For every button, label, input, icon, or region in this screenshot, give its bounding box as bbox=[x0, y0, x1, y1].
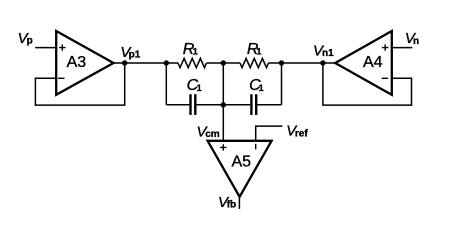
svg-text:A4: A4 bbox=[363, 54, 383, 71]
svg-text:fb: fb bbox=[227, 200, 236, 211]
svg-text:1: 1 bbox=[256, 46, 261, 56]
svg-text:1: 1 bbox=[259, 83, 264, 93]
svg-text:A5: A5 bbox=[232, 153, 252, 170]
svg-text:p1: p1 bbox=[129, 50, 141, 61]
svg-text:n1: n1 bbox=[322, 48, 334, 59]
svg-text:cm: cm bbox=[205, 129, 220, 140]
svg-text:1: 1 bbox=[197, 83, 202, 93]
svg-text:ref: ref bbox=[295, 128, 308, 139]
svg-text:p: p bbox=[27, 36, 33, 47]
svg-text:A3: A3 bbox=[67, 54, 87, 71]
svg-text:1: 1 bbox=[193, 46, 198, 56]
svg-text:n: n bbox=[413, 36, 419, 47]
